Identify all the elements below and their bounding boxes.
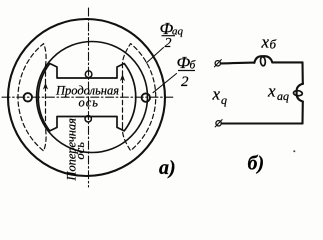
leader line for Phi_aq/2	[146, 48, 163, 64]
inductor x_aq (single loop coil on vertical wire)	[297, 84, 303, 102]
svg-text:2: 2	[181, 74, 189, 90]
inductor x_b (single loop coil)	[254, 56, 272, 63]
svg-text:2: 2	[165, 36, 172, 51]
svg-text:x: x	[267, 82, 276, 101]
svg-text:ось: ось	[73, 142, 87, 160]
wire right vertical lower	[301, 102, 303, 124]
svg-text:q: q	[221, 93, 227, 107]
conductor circle bottom (q-axis)	[85, 116, 91, 122]
svg-text:б: б	[190, 60, 197, 72]
flux loop left yoke path (dashed)	[18, 44, 46, 151]
stator outer circle	[8, 19, 165, 176]
wire right vertical upper	[301, 62, 303, 84]
conductor circle top (q-axis)	[85, 71, 92, 78]
label Phi_b / 2	[177, 53, 197, 90]
flux line through right pole (dashed, arrow up)	[122, 67, 124, 127]
svg-text:Ф: Ф	[177, 53, 191, 72]
stator bore circle	[37, 42, 148, 153]
terminal bottom-left	[216, 121, 221, 126]
rotor body with pole shoes	[38, 64, 135, 131]
wire top	[221, 62, 255, 65]
svg-text:x: x	[212, 85, 221, 104]
svg-text:ось: ось	[79, 96, 100, 110]
wire top right	[272, 61, 302, 63]
wire bottom	[222, 122, 303, 124]
svg-text:aq: aq	[277, 89, 289, 103]
conductor circle right air gap	[142, 93, 150, 101]
conductor circle left air gap	[24, 93, 32, 101]
label Phi_aq / 2	[160, 19, 184, 51]
terminal top-left	[215, 61, 220, 66]
arrowhead left flux line	[43, 83, 48, 90]
q-axis vertical dash-dot line	[88, 8, 90, 187]
leader line for Phi_b/2	[153, 74, 177, 93]
flux line through left pole (dashed, arrow up)	[45, 66, 47, 128]
d-axis horizontal dash-dot line	[2, 96, 174, 98]
circuit figure b	[214, 56, 303, 127]
svg-text:x: x	[261, 33, 270, 52]
arrowhead right flux line	[120, 74, 125, 81]
svg-text:б): б)	[248, 153, 265, 175]
scan speck	[293, 150, 295, 152]
flux loop right yoke path (dashed)	[122, 44, 155, 151]
svg-text:а): а)	[159, 157, 176, 179]
svg-text:б: б	[270, 37, 277, 52]
